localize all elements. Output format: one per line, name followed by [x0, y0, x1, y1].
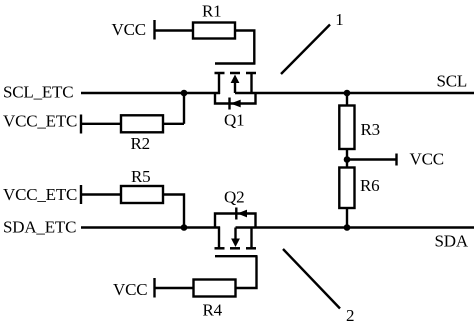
wire R3 to R6 — [346, 149, 348, 168]
wire R1 to Q1 gate — [235, 31, 254, 65]
svg-text:VCC_ETC: VCC_ETC — [3, 112, 77, 131]
callout line 2 — [283, 249, 340, 309]
wire R6 to SDA — [346, 208, 348, 228]
transistor Q1 right stub — [250, 73, 252, 94]
resistor R6 — [339, 168, 354, 209]
node VCC_ETC terminal tick top — [80, 115, 82, 134]
wire VCC_ETC to R5 — [81, 193, 121, 195]
transistor Q2 left stub — [218, 227, 220, 249]
svg-text:2: 2 — [346, 306, 354, 321]
svg-text:Q2: Q2 — [224, 188, 244, 207]
wire junction to VCC tick — [347, 158, 397, 160]
node VCC terminal tick right — [395, 154, 397, 166]
svg-text:SCL: SCL — [437, 72, 468, 91]
svg-text:R6: R6 — [360, 176, 379, 195]
transistor Q1 gate line — [215, 62, 255, 64]
transistor Q2 body diode loop — [215, 214, 256, 228]
wire VCC_ETC to R2 — [81, 123, 121, 125]
transistor Q1 left stub — [218, 73, 220, 94]
node junction dot SCL_ETC/R2 — [181, 90, 188, 97]
resistor R5 — [121, 186, 163, 203]
node junction dot SCL/R3 — [344, 90, 351, 97]
svg-text:VCC_ETC: VCC_ETC — [3, 185, 77, 204]
transistor Q1 diode bar — [228, 98, 230, 110]
wire Q2 gate to R4 — [236, 256, 257, 288]
transistor Q2 diode triangle — [237, 210, 247, 218]
svg-text:R1: R1 — [202, 2, 221, 21]
transistor Q1 body diode loop — [215, 93, 256, 104]
transistor Q1 channel caps — [215, 72, 257, 75]
wire SDA_ETC horizontal — [81, 226, 220, 228]
resistor R3 — [339, 106, 354, 150]
node VCC terminal tick bottom — [153, 278, 155, 298]
transistor Q2 diode bar — [235, 208, 237, 220]
svg-text:R5: R5 — [131, 167, 150, 186]
node junction dot SDA_ETC/R5 — [181, 224, 188, 231]
svg-text:VCC: VCC — [112, 20, 146, 39]
node VCC_ETC terminal tick bottom — [80, 185, 82, 204]
resistor R1 — [193, 23, 235, 39]
transistor Q1 diode triangle — [231, 100, 241, 108]
svg-text:VCC: VCC — [410, 150, 444, 169]
svg-text:SCL_ETC: SCL_ETC — [3, 83, 73, 102]
svg-text:1: 1 — [335, 10, 343, 29]
svg-text:SDA: SDA — [435, 232, 469, 251]
wire R4 to VCC — [156, 287, 194, 289]
node junction dot VCC mid — [344, 156, 351, 163]
wire SCL horizontal — [235, 92, 474, 94]
node junction dot SDA/R6 — [344, 224, 351, 231]
resistor R2 — [121, 115, 163, 132]
svg-text:R3: R3 — [361, 120, 380, 139]
wire SCL junction to R3 — [346, 93, 348, 106]
wire R2 to junction — [163, 123, 184, 125]
wire SDA horizontal — [236, 226, 474, 228]
node VCC terminal tick top — [153, 20, 155, 40]
wire junction down to R2 — [183, 93, 185, 124]
svg-text:VCC: VCC — [113, 280, 147, 299]
svg-text:SDA_ETC: SDA_ETC — [3, 218, 76, 237]
svg-text:R2: R2 — [131, 134, 150, 153]
callout line 1 — [281, 25, 330, 75]
transistor Q2 gate line — [215, 255, 258, 257]
transistor Q2 right stub — [250, 227, 252, 249]
resistor R4 — [194, 280, 236, 297]
wire VCC to R1 — [155, 29, 194, 31]
wire R5 to junction — [163, 195, 184, 228]
transistor Q2 channel caps — [215, 247, 257, 250]
svg-text:R4: R4 — [203, 301, 223, 320]
svg-text:Q1: Q1 — [224, 111, 244, 130]
transistor Q2 body arrow down — [231, 228, 240, 248]
transistor Q1 body arrow up — [231, 75, 240, 94]
wire SCL_ETC horizontal — [81, 92, 220, 94]
